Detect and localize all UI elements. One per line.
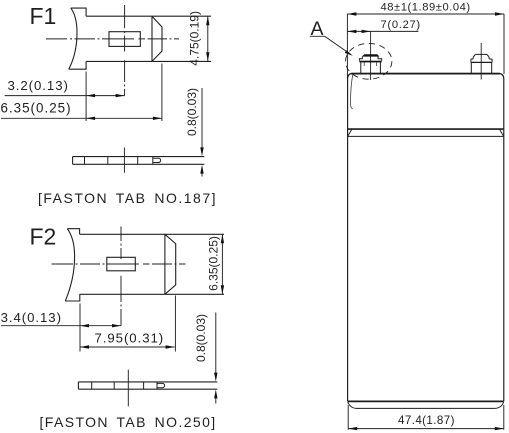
svg-text:0.8(0.03): 0.8(0.03) (194, 314, 208, 362)
svg-text:3.2(0.13): 3.2(0.13) (8, 78, 69, 93)
svg-text:[FASTON TAB NO.187]: [FASTON TAB NO.187] (38, 190, 217, 206)
svg-text:4.75(0.19): 4.75(0.19) (188, 11, 202, 66)
svg-text:F1: F1 (30, 3, 57, 29)
svg-text:47.4(1.87): 47.4(1.87) (398, 414, 455, 427)
svg-text:A: A (311, 18, 324, 40)
svg-text:6.35(0.25): 6.35(0.25) (1, 101, 72, 116)
svg-text:7(0.27): 7(0.27) (381, 19, 421, 31)
svg-text:3.4(0.13): 3.4(0.13) (1, 310, 62, 325)
svg-text:0.8(0.03): 0.8(0.03) (185, 88, 199, 136)
svg-text:F2: F2 (30, 224, 57, 250)
svg-text:[FASTON TAB NO.250]: [FASTON TAB NO.250] (40, 414, 217, 430)
svg-text:7.95(0.31): 7.95(0.31) (95, 331, 165, 346)
svg-text:6.35(0.25): 6.35(0.25) (206, 236, 220, 291)
svg-text:48±1(1.89±0.04): 48±1(1.89±0.04) (381, 1, 471, 13)
